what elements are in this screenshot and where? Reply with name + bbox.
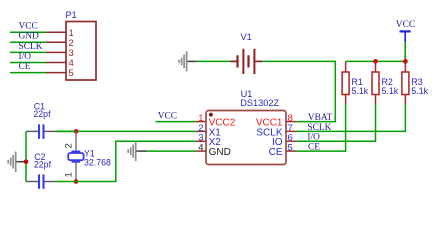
wire VCC to U1 pin 1	[156, 121, 197, 123]
svg-text:VCC: VCC	[19, 22, 38, 32]
wire GND to P1 pin 2	[10, 41, 46, 43]
svg-text:V1: V1	[241, 32, 252, 42]
crystal Y1	[68, 131, 83, 181]
svg-text:22pf: 22pf	[33, 109, 51, 119]
U1 pin 5 lead	[286, 150, 296, 152]
wire VCC to P1 pin 1	[10, 31, 46, 33]
wire R2 bottom to I/O row	[296, 104, 376, 142]
resistor R2	[372, 61, 379, 103]
svg-text:CE: CE	[269, 147, 283, 158]
svg-text:5.1k: 5.1k	[382, 86, 399, 96]
ground at U1 pin 4	[128, 141, 146, 161]
U1 pin 2 lead	[196, 130, 206, 132]
svg-text:4: 4	[198, 143, 203, 154]
wire R3 bottom to SCLK row	[296, 104, 405, 132]
U1 pin 7 lead	[286, 130, 296, 132]
wire ground to U1 pin 4	[147, 150, 197, 152]
ground at capacitor rail	[8, 152, 26, 173]
svg-text:22pf: 22pf	[34, 159, 52, 169]
IC U1 DS1302Z body	[206, 111, 286, 165]
U1 pin 3 lead	[196, 140, 206, 142]
P1 pin 3 lead	[46, 51, 66, 53]
wire C1 to X1 dot	[56, 130, 77, 132]
svg-text:DS1302Z: DS1302Z	[240, 98, 279, 108]
connector P1	[66, 22, 96, 81]
wire battery to VBAT vertical	[262, 61, 335, 121]
resistor R3	[402, 61, 409, 103]
wire SCLK to P1 pin 3	[10, 51, 46, 53]
wire resistor top rail	[346, 60, 406, 62]
wire left capacitor rail	[25, 131, 27, 181]
wire R1 bottom to CE row	[296, 104, 346, 152]
svg-text:VBAT: VBAT	[308, 113, 333, 123]
svg-text:32.768: 32.768	[84, 157, 111, 167]
svg-text:P1: P1	[66, 10, 77, 20]
svg-text:SCLK: SCLK	[19, 42, 43, 52]
junction node X1 / crystal top	[74, 129, 79, 134]
wire X2 route from crystal bottom	[76, 141, 196, 181]
P1 pin 1 lead	[46, 31, 66, 33]
junction node crystal bottom / C2	[74, 179, 79, 184]
svg-text:1: 1	[64, 172, 75, 177]
svg-text:5: 5	[69, 68, 74, 79]
svg-text:GND: GND	[19, 32, 40, 42]
svg-text:CE: CE	[19, 62, 31, 72]
U1 pin 4 lead	[196, 150, 206, 152]
svg-text:I/O: I/O	[19, 52, 32, 62]
wire I/O to P1 pin 4	[10, 62, 46, 64]
wire X1 row	[56, 130, 196, 132]
battery V1	[231, 49, 263, 74]
svg-text:2: 2	[64, 143, 75, 148]
wire CE to P1 pin 5	[10, 72, 46, 74]
svg-text:5.1k: 5.1k	[411, 86, 428, 96]
ground at battery	[179, 51, 187, 71]
svg-text:SCLK: SCLK	[307, 123, 331, 133]
wire ground to battery V1	[197, 60, 231, 62]
wire C2 to crystal bottom	[56, 181, 77, 183]
wire VCC to resistor rail	[404, 42, 406, 61]
P1 pin 4 lead	[46, 62, 66, 64]
U1 pin 1 lead	[196, 121, 206, 123]
junction node ground rail	[24, 159, 29, 164]
svg-text:5: 5	[288, 143, 293, 154]
svg-text:5.1k: 5.1k	[352, 86, 369, 96]
P1 pin 2 lead	[46, 41, 66, 43]
svg-text:VCC: VCC	[158, 111, 177, 121]
power symbol VCC top right	[396, 20, 415, 42]
P1 pin 5 lead	[46, 72, 66, 74]
resistor R1	[342, 61, 349, 103]
U1 pin 8 lead	[286, 121, 296, 123]
capacitor C1	[26, 124, 56, 138]
svg-text:VCC: VCC	[396, 20, 415, 30]
svg-text:CE: CE	[308, 143, 320, 153]
junction node at R2 top	[373, 59, 378, 64]
capacitor C2	[26, 174, 56, 188]
svg-text:GND: GND	[209, 147, 231, 158]
svg-text:I/O: I/O	[307, 133, 320, 143]
junction node at R3 top	[403, 59, 408, 64]
U1 pin 6 lead	[286, 140, 296, 142]
U1 pin 1 marker dot	[209, 113, 213, 117]
